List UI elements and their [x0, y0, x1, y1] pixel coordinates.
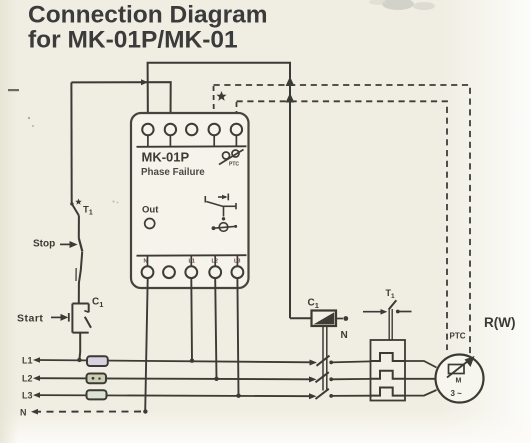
motor lead 3 — [405, 390, 437, 396]
bottom terminal circle b3 — [185, 266, 197, 278]
L3 line — [36, 395, 314, 396]
terminal stub t2 — [169, 136, 171, 147]
contactor coil C1 — [312, 311, 337, 327]
stray mark left edge — [8, 89, 19, 91]
heater element 2 — [371, 371, 406, 379]
svg-text:N: N — [341, 330, 348, 341]
terminal stub t1 — [147, 136, 149, 147]
bottom terminal circle b5 — [232, 266, 244, 278]
dashed PTC sensor line A (outer) — [214, 85, 471, 354]
terminal circle t1 — [142, 124, 153, 135]
heater element 3 — [371, 388, 406, 396]
contactor pole 3 blade — [316, 389, 329, 399]
terminal circle t2 — [165, 124, 176, 135]
heater element 1 — [371, 353, 406, 361]
bottom terminal tiny labels — [144, 259, 241, 265]
wire: left control drop — [70, 82, 72, 203]
switch T1 (NC thermal contact) pivot — [70, 202, 73, 205]
coil N terminal wire — [336, 318, 343, 320]
svg-text:N: N — [20, 408, 27, 418]
coil N terminal dot — [343, 316, 348, 321]
fuse F3 — [87, 390, 107, 399]
junction start branch on L1 — [77, 358, 81, 362]
svg-text:Phase Failure: Phase Failure — [141, 167, 205, 178]
dashed PTC sensor line B (inner) — [237, 101, 448, 350]
relay top separator line — [137, 145, 247, 148]
wire: top feed from terminal 1 over to coil drop — [148, 63, 290, 318]
svg-text:Out: Out — [142, 205, 159, 216]
T1 asterisk tick — [75, 199, 82, 205]
contact C1 aux blade — [85, 317, 91, 328]
asterisk note mark — [216, 91, 226, 101]
svg-text:Connection Diagram: Connection Diagram — [28, 2, 268, 29]
terminal stub t4 — [213, 136, 215, 147]
arrowhead up on coil drop at PTC line A — [286, 77, 295, 87]
wire coil feed horizontal — [290, 317, 312, 319]
stray specks — [28, 117, 30, 119]
bottom stub b4 — [214, 256, 216, 266]
contact C1 aux branch stub — [88, 304, 90, 313]
thermistor arrow — [447, 361, 468, 378]
motor M 3~ — [436, 355, 484, 403]
Stop actuator arrow — [60, 243, 70, 245]
bottom terminal circle b4 — [209, 266, 221, 278]
contact C1 aux tick — [84, 311, 88, 313]
relay bottom separator line — [137, 254, 247, 257]
wire: control feed from left branch to terminal 2 — [71, 82, 170, 123]
terminal circle t4 — [209, 124, 220, 135]
pushbutton Stop blade — [79, 238, 83, 251]
N dashed line — [34, 411, 146, 413]
svg-text:Start: Start — [17, 313, 43, 325]
motor lead 1 — [405, 361, 437, 368]
fuse F1 — [87, 356, 108, 366]
contactor linkage — [323, 327, 327, 391]
wire b5 to L3 — [237, 279, 238, 396]
L3 contact arrowhead — [309, 393, 317, 399]
svg-text:L2: L2 — [22, 374, 33, 384]
overload linkage — [389, 309, 392, 350]
N start arrow — [31, 409, 38, 415]
junction b4 on L2 — [214, 377, 218, 381]
L1 contact arrowhead — [310, 360, 318, 366]
junction b1 on N — [143, 409, 147, 413]
contactor pole 1 blade — [317, 356, 330, 366]
L2 line — [36, 378, 314, 379]
scan smudge top-right — [369, 0, 435, 10]
L1 line after contact — [331, 361, 371, 362]
contactor pole 2 blade — [316, 372, 329, 382]
start/C1 parallel loop top — [72, 303, 88, 305]
wire b4 to L2 — [215, 279, 216, 379]
title — [28, 2, 268, 54]
L3 start arrow — [33, 392, 40, 398]
svg-text:Stop: Stop — [33, 239, 55, 250]
relay MK-01P body — [131, 113, 249, 288]
wire b3 to L1 — [190, 279, 193, 361]
bottom terminal circle b1 — [142, 266, 154, 278]
L1 start arrow — [33, 357, 40, 363]
L2 start arrow — [33, 375, 40, 381]
motor lead 2 — [405, 378, 436, 380]
L1 line — [36, 360, 313, 362]
terminal circle t3 — [186, 124, 197, 135]
dashed stub to terminal 5 — [236, 102, 238, 118]
bottom stub b5 — [236, 256, 238, 266]
bottom stub b3 — [190, 256, 192, 266]
terminal circle t5 — [231, 124, 242, 135]
overload contact T1 right lead — [397, 311, 412, 313]
L3 line after contact — [331, 395, 371, 397]
switch T1 blade — [72, 204, 79, 216]
svg-text:3 ~: 3 ~ — [451, 389, 463, 398]
bottom stub b1 — [147, 256, 149, 266]
splice tick on wire — [75, 268, 77, 281]
PTC input icon — [219, 150, 244, 165]
dashed stub to terminal 4 — [213, 86, 215, 118]
overload contact T1 blade — [389, 300, 397, 309]
L2 contact arrowhead — [309, 376, 317, 382]
bottom terminal circle b2 — [163, 266, 175, 278]
pushbutton Start branch (left leg) — [71, 304, 73, 333]
junction b5 on L3 — [236, 394, 240, 398]
loop bottom — [72, 332, 88, 334]
overload contact T1 left lead — [363, 311, 383, 313]
svg-text:for MK-01P/MK-01: for MK-01P/MK-01 — [28, 27, 238, 54]
junction b3 on L1 — [190, 359, 194, 363]
svg-text:R(W): R(W) — [484, 315, 515, 330]
wire between T1 and Stop — [78, 216, 80, 239]
Start actuator arrow — [51, 316, 61, 318]
LED indicator circle — [145, 219, 155, 229]
svg-text:L3: L3 — [22, 391, 33, 401]
relay contact symbol — [205, 194, 236, 232]
svg-text:MK-01P: MK-01P — [142, 150, 190, 165]
svg-text:PTC: PTC — [450, 332, 466, 341]
wire loop to L1 — [78, 333, 81, 360]
thermistor in motor — [449, 365, 465, 374]
svg-text:L1: L1 — [22, 356, 33, 366]
terminal stub t5 — [235, 136, 237, 147]
fuse F2 — [87, 374, 107, 384]
junction arrow on control feed — [141, 79, 148, 85]
thermal overload body — [371, 340, 406, 401]
svg-text:M: M — [456, 378, 462, 385]
L2 line after contact — [331, 378, 371, 380]
wire b1 to N line — [145, 279, 148, 412]
wire between Stop and Start loop — [79, 252, 82, 304]
arrowhead up on coil drop at PTC line B — [286, 93, 295, 103]
svg-text:PTC: PTC — [229, 162, 239, 168]
